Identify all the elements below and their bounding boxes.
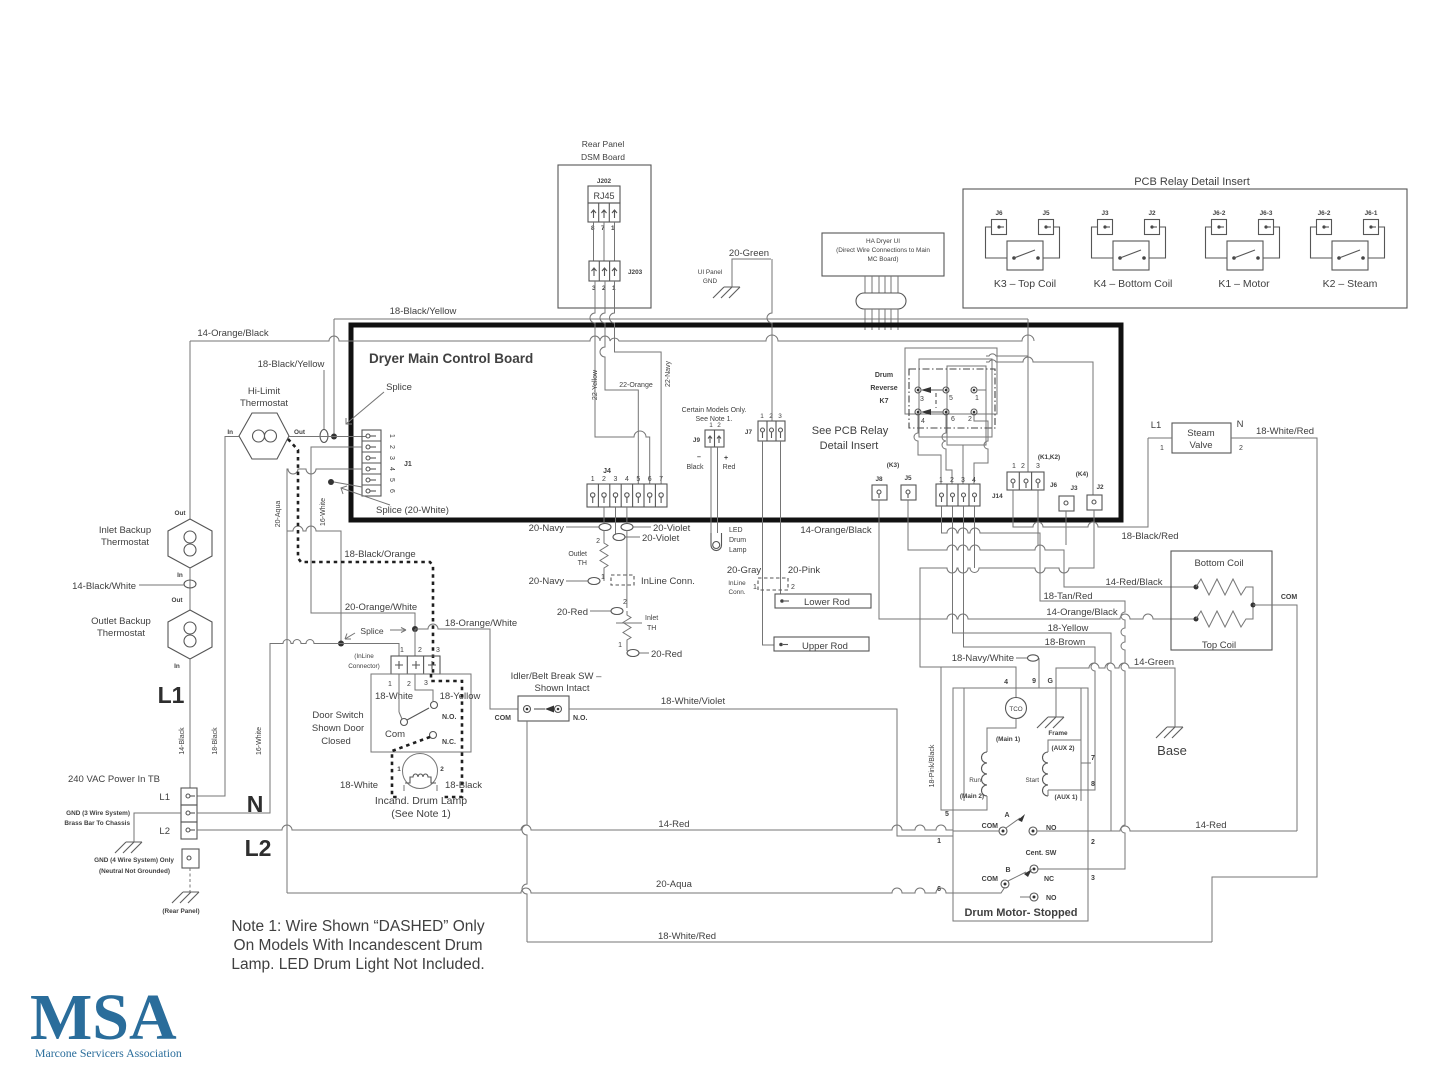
svg-text:2: 2: [388, 445, 395, 449]
svg-text:N.C.: N.C.: [442, 739, 456, 746]
ground Base: [1156, 727, 1183, 738]
wire cross link 16-White upper: [287, 526, 341, 643]
svg-text:1: 1: [937, 838, 941, 845]
box Upper Rod: [774, 637, 869, 652]
svg-text:18-White: 18-White: [340, 780, 378, 791]
door switch box: [371, 674, 471, 752]
svg-text:6: 6: [648, 476, 652, 483]
svg-text:UI Panel: UI Panel: [698, 269, 723, 276]
drum reverse K7 nest mid rect: [919, 359, 992, 437]
wire J4 pin2 20-Navy chain: [566, 507, 604, 527]
svg-text:1: 1: [618, 642, 622, 649]
svg-text:18-White/Violet: 18-White/Violet: [661, 696, 726, 707]
svg-text:InLine Conn.: InLine Conn.: [641, 576, 695, 587]
svg-text:Detail Insert: Detail Insert: [820, 440, 879, 452]
svg-text:18-Black/Red: 18-Black/Red: [1121, 531, 1178, 542]
svg-text:(K4): (K4): [1076, 471, 1088, 478]
svg-text:2: 2: [769, 413, 773, 420]
svg-text:14-Green: 14-Green: [1134, 657, 1174, 668]
svg-text:L1: L1: [1151, 420, 1162, 431]
svg-text:1: 1: [1012, 463, 1016, 470]
svg-text:18-Yellow: 18-Yellow: [1048, 623, 1089, 634]
thermal cutoff TCO: [1006, 698, 1027, 719]
svg-text:N: N: [247, 791, 264, 817]
svg-text:J5: J5: [904, 475, 912, 482]
relay K7 drum reverse: [870, 372, 979, 425]
svg-text:20-Red: 20-Red: [557, 607, 588, 618]
wire 18-Black/Yellow down right side to J6 pin 2: [1027, 319, 1029, 472]
svg-text:Thermostat: Thermostat: [97, 628, 145, 639]
wire thermostat chain In drop 18-Black: [197, 437, 239, 797]
svg-text:Steam: Steam: [1187, 428, 1215, 439]
wire J202 to J203 pins: [594, 222, 615, 261]
outlet backup thermostat: [91, 597, 212, 670]
svg-text:20-Green: 20-Green: [729, 248, 769, 259]
svg-text:J6-2: J6-2: [1213, 210, 1226, 217]
wire J1 pin2 20-Orange/White run: [311, 447, 415, 629]
svg-text:Drum: Drum: [729, 537, 746, 544]
svg-text:Drum Motor- Stopped: Drum Motor- Stopped: [964, 907, 1077, 919]
svg-text:J5: J5: [1042, 210, 1050, 217]
svg-text:(AUX 1): (AUX 1): [1054, 794, 1077, 801]
box heater coils: [1171, 551, 1272, 651]
hi-limit thermostat: [227, 386, 306, 459]
svg-text:18-White: 18-White: [375, 691, 413, 702]
svg-text:K2 – Steam: K2 – Steam: [1323, 278, 1378, 290]
svg-text:On Models With Incandescent Dr: On Models With Incandescent Drum: [234, 937, 483, 954]
drum reverse K7 dash-dot box: [909, 369, 995, 428]
svg-text:J8: J8: [875, 476, 883, 483]
wire dashed connector pin3 to lamp pin2: [431, 674, 462, 797]
switch centrifugal B: [1001, 880, 1009, 888]
wire 18-Orange/White from splice to idler COM: [415, 624, 518, 709]
valve steam: [1151, 419, 1244, 453]
svg-text:Door Switch: Door Switch: [312, 710, 363, 721]
svg-text:14-Orange/Black: 14-Orange/Black: [197, 328, 269, 339]
svg-text:J6-3: J6-3: [1260, 210, 1273, 217]
svg-text:22-Navy: 22-Navy: [665, 360, 672, 387]
svg-text:K7: K7: [880, 398, 889, 405]
wire start to pins 7 8: [1048, 740, 1095, 796]
svg-text:Com: Com: [385, 729, 405, 740]
wire J9 pins to LED lamp: [711, 447, 718, 533]
svg-text:3: 3: [424, 680, 428, 687]
svg-text:Start: Start: [1026, 777, 1040, 784]
HA Dryer UI box: [822, 233, 944, 276]
svg-text:In: In: [177, 572, 183, 579]
wire idler COM down: [522, 721, 527, 942]
svg-text:In: In: [174, 663, 180, 670]
wire J4 pin3 20-Violet lower: [616, 507, 641, 537]
connector J203: [589, 261, 643, 292]
svg-text:Top Coil: Top Coil: [1202, 640, 1236, 651]
svg-text:PCB Relay Detail Insert: PCB Relay Detail Insert: [1134, 176, 1250, 188]
wire inlet to outlet thermostat: [189, 568, 191, 610]
resistor Outlet TH: [600, 530, 608, 581]
svg-text:COM: COM: [1281, 594, 1298, 601]
svg-text:22-Yellow: 22-Yellow: [592, 369, 599, 400]
svg-text:4: 4: [921, 418, 925, 425]
wire bundle HA UI to board: [865, 276, 898, 293]
svg-text:3: 3: [614, 476, 618, 483]
svg-text:Inlet Backup: Inlet Backup: [99, 525, 151, 536]
wire 22-Navy from J203 pin 1: [610, 281, 662, 484]
svg-text:20-Gray: 20-Gray: [727, 565, 762, 576]
svg-text:TH: TH: [578, 560, 587, 567]
svg-text:L2: L2: [245, 835, 272, 861]
svg-text:See PCB Relay: See PCB Relay: [812, 425, 889, 437]
wire J6 pin3 stub: [1037, 490, 1039, 545]
svg-text:1: 1: [1160, 445, 1164, 452]
svg-text:14-Red: 14-Red: [658, 819, 689, 830]
svg-text:Connector): Connector): [348, 663, 380, 670]
svg-text:4: 4: [1004, 679, 1008, 686]
svg-text:14-Red: 14-Red: [1195, 820, 1226, 831]
svg-text:18-Pink/Black: 18-Pink/Black: [929, 744, 936, 787]
svg-text:3: 3: [961, 477, 965, 484]
svg-text:B: B: [1005, 867, 1010, 874]
svg-text:2: 2: [1021, 463, 1025, 470]
wire J7 pin3 to lower rod: [780, 441, 782, 594]
wire J7 pin1 to upper rod: [763, 441, 775, 645]
connector J14: [936, 477, 1003, 506]
connector J6: [1007, 454, 1060, 490]
svg-text:18-Black: 18-Black: [212, 727, 219, 755]
svg-text:(Main 2): (Main 2): [960, 793, 984, 800]
svg-text:DSM Board: DSM Board: [581, 152, 625, 162]
switch centrifugal A: [999, 827, 1007, 835]
wire dashed to rear panel ground: [189, 868, 191, 892]
svg-text:18-Brown: 18-Brown: [1045, 637, 1086, 648]
svg-text:Splice: Splice: [360, 626, 383, 636]
svg-text:J9: J9: [693, 437, 701, 444]
svg-text:(K1,K2): (K1,K2): [1038, 454, 1060, 461]
svg-text:Hi-Limit: Hi-Limit: [248, 386, 281, 397]
svg-text:HA Dryer UI: HA Dryer UI: [866, 238, 900, 245]
lamp LED drum: [711, 533, 722, 551]
svg-text:Incand. Drum Lamp: Incand. Drum Lamp: [375, 795, 467, 807]
svg-text:J7: J7: [745, 429, 753, 436]
wire J6 pin1 18-Black/Red to steam valve: [1013, 438, 1148, 527]
svg-text:14-Orange/Black: 14-Orange/Black: [1046, 607, 1118, 618]
svg-text:J3: J3: [1101, 210, 1109, 217]
svg-text:Out: Out: [294, 429, 306, 436]
wire TCO to run winding: [987, 719, 1016, 753]
svg-text:NC: NC: [1044, 876, 1054, 883]
svg-text:Thermostat: Thermostat: [240, 398, 288, 409]
relay K3 Top Coil detail: [986, 210, 1060, 290]
svg-text:1: 1: [709, 422, 713, 429]
svg-text:Reverse: Reverse: [870, 385, 897, 392]
svg-text:J1: J1: [404, 461, 412, 468]
svg-text:LED: LED: [729, 527, 743, 534]
relay K4 Bottom Coil detail: [1092, 210, 1173, 290]
wire K7 inner rect pin3 feeder: [962, 445, 964, 484]
svg-text:Cent. SW: Cent. SW: [1026, 850, 1057, 857]
svg-text:TCO: TCO: [1009, 706, 1022, 713]
svg-text:1: 1: [601, 574, 605, 581]
svg-text:14-Orange/Black: 14-Orange/Black: [800, 525, 872, 536]
svg-text:4: 4: [388, 467, 395, 471]
wire 16-White to door connector pin 1: [270, 640, 399, 657]
svg-text:GND: GND: [703, 278, 718, 285]
svg-text:1: 1: [388, 681, 392, 688]
svg-text:In: In: [227, 429, 233, 436]
connector J7: [745, 413, 785, 441]
drum reverse K7 nest inner rect: [947, 366, 986, 445]
wire 14-Green: [1056, 663, 1175, 727]
wire J1 pin4 to 20-Aqua drop: [287, 469, 362, 893]
svg-text:COM: COM: [982, 823, 999, 830]
wire N terminal to chassis ground: [134, 813, 181, 842]
svg-text:L1: L1: [159, 792, 170, 803]
svg-text:8: 8: [1091, 781, 1095, 788]
svg-text:18-Black/Yellow: 18-Black/Yellow: [390, 306, 457, 317]
ground rear panel: [172, 892, 199, 903]
svg-text:Upper Rod: Upper Rod: [802, 641, 848, 652]
svg-text:Red: Red: [723, 464, 736, 471]
svg-text:InLine: InLine: [728, 580, 746, 587]
wire bundle stadium to board edge: [865, 309, 898, 330]
wire from label into splice oval: [323, 370, 325, 430]
svg-text:(See Note 1): (See Note 1): [391, 808, 451, 820]
wire idler NO 18-White/Violet: [569, 709, 953, 836]
connector GND 4 wire box: [182, 849, 199, 868]
svg-text:K1 – Motor: K1 – Motor: [1218, 278, 1270, 290]
svg-text:5: 5: [945, 811, 949, 818]
wire 18-White/Red long bottom run: [527, 941, 1212, 943]
svg-text:(Direct Wire Connections to Ma: (Direct Wire Connections to Main: [836, 247, 930, 254]
svg-text:20-Aqua: 20-Aqua: [656, 879, 693, 890]
svg-text:Base: Base: [1157, 743, 1187, 758]
node splice dot right: [412, 626, 418, 632]
svg-text:GND (3 Wire System): GND (3 Wire System): [66, 810, 130, 817]
inlet backup thermostat: [99, 510, 212, 579]
svg-text:Valve: Valve: [1189, 440, 1212, 451]
svg-text:Outlet: Outlet: [568, 551, 587, 558]
idler belt break switch: [495, 671, 602, 722]
wire 18-Black/Yellow drop to splice: [333, 319, 335, 436]
svg-text:Out: Out: [171, 597, 183, 604]
ground Frame: [1055, 688, 1057, 717]
terminal block 240VAC: [68, 774, 197, 839]
svg-text:Bottom Coil: Bottom Coil: [1194, 558, 1243, 569]
wire J5 14-Red/Black to bottom coil: [908, 500, 1196, 587]
svg-text:Splice (20-White): Splice (20-White): [376, 505, 449, 516]
svg-text:20-Pink: 20-Pink: [788, 565, 820, 576]
wire splice to door connector pin 2: [414, 629, 416, 656]
svg-text:NO: NO: [1046, 825, 1057, 832]
svg-text:7: 7: [1091, 755, 1095, 762]
svg-text:3: 3: [1091, 875, 1095, 882]
svg-text:1: 1: [753, 584, 757, 591]
svg-text:N.O.: N.O.: [573, 715, 587, 722]
svg-text:Inlet: Inlet: [645, 615, 658, 622]
svg-text:(K3): (K3): [887, 462, 899, 469]
wire coil COM: [1253, 605, 1297, 831]
wire dashed NC to lamp pin1: [392, 737, 430, 797]
svg-text:2: 2: [623, 599, 627, 606]
connector J9: [693, 422, 724, 447]
svg-text:(Main 1): (Main 1): [996, 736, 1020, 743]
wire K7 pin1 to nest edge: [977, 389, 986, 391]
svg-text:16-White: 16-White: [256, 727, 263, 755]
node splice 20-White dot: [328, 479, 334, 485]
lamp incandescent drum: [397, 754, 444, 792]
svg-text:2: 2: [418, 647, 422, 654]
svg-text:1: 1: [591, 476, 595, 483]
svg-text:Drum: Drum: [875, 372, 893, 379]
svg-text:2: 2: [407, 681, 411, 688]
node splice junction: [331, 434, 337, 440]
svg-text:1: 1: [400, 647, 404, 654]
wire dashed 18-Black/Orange: [288, 439, 433, 674]
svg-text:2: 2: [602, 476, 606, 483]
svg-text:Thermostat: Thermostat: [101, 537, 149, 548]
svg-text:COM: COM: [982, 876, 999, 883]
svg-text:Certain Models Only.: Certain Models Only.: [682, 407, 747, 414]
wire K7 nest exits right: [986, 354, 1093, 495]
svg-text:6: 6: [951, 416, 955, 423]
svg-text:1: 1: [939, 477, 943, 484]
svg-text:18-White/Red: 18-White/Red: [1256, 426, 1314, 437]
svg-text:J6-1: J6-1: [1365, 210, 1378, 217]
wire 20-Aqua long bottom run: [287, 888, 953, 893]
svg-text:Dryer Main Control Board: Dryer Main Control Board: [369, 351, 533, 366]
motor box: [953, 688, 1088, 921]
splice oval on hi-limit out wire: [320, 430, 328, 443]
wire N terminal to 16-White riser: [197, 643, 270, 813]
wire hi-limit out to J1 pin 1: [289, 436, 366, 438]
wire 14-Red long L2 run: [197, 825, 953, 830]
wire 20-Navy lower: [566, 580, 588, 582]
svg-text:3: 3: [436, 647, 440, 654]
svg-text:18-Black/Yellow: 18-Black/Yellow: [258, 359, 325, 370]
svg-text:20-Navy: 20-Navy: [529, 576, 565, 587]
svg-text:18-Navy/White: 18-Navy/White: [952, 653, 1014, 664]
svg-text:TH: TH: [647, 625, 656, 632]
svg-text:14-Black/White: 14-Black/White: [72, 581, 136, 592]
svg-text:K3 – Top Coil: K3 – Top Coil: [994, 278, 1056, 290]
DSM board outline: [558, 165, 651, 308]
wire 20-Green down to J7 pin 2: [767, 259, 772, 421]
svg-text:J202: J202: [597, 178, 612, 185]
svg-text:(InLine: (InLine: [354, 653, 374, 660]
svg-text:N: N: [1237, 419, 1244, 430]
wire 22-Yellow vertical from J203 pin 3: [590, 281, 650, 484]
svg-text:A: A: [1004, 812, 1009, 819]
wire splice dot to J1 pin 6: [334, 482, 362, 487]
wire run to pin 5: [953, 796, 987, 810]
node splice dot left: [338, 641, 344, 647]
svg-text:Splice: Splice: [386, 382, 412, 393]
svg-text:Marcone Servicers Association: Marcone Servicers Association: [35, 1046, 182, 1060]
wire 18-Black/Yellow top: [334, 318, 1028, 320]
inline connector dashed (outlet-inlet): [611, 575, 634, 585]
svg-text:Rear Panel: Rear Panel: [582, 139, 625, 149]
coil Start winding: [1043, 752, 1049, 796]
svg-text:18-Black: 18-Black: [445, 780, 482, 791]
wire 14-Orange/Black down to inlet thermostat: [189, 341, 191, 519]
svg-text:Run: Run: [969, 777, 981, 784]
svg-text:Shown Door: Shown Door: [312, 723, 364, 734]
svg-text:4: 4: [972, 477, 976, 484]
svg-text:MC Board): MC Board): [868, 256, 899, 263]
svg-text:Brass Bar To Chassis: Brass Bar To Chassis: [64, 820, 130, 827]
svg-text:See Note 1.: See Note 1.: [696, 416, 733, 423]
wire K7 pin6 to J14 pin2: [942, 415, 952, 484]
wire J8 14-Orange/Black to top coil: [879, 500, 1196, 619]
svg-text:3: 3: [920, 396, 924, 403]
wire K7 pin4 to J14 pin1: [914, 415, 941, 484]
switch door contacts: [385, 674, 456, 746]
wire J14 pin3 18-Brown: [964, 506, 1096, 790]
svg-text:2: 2: [968, 416, 972, 423]
svg-text:COM: COM: [495, 715, 512, 722]
svg-text:Outlet Backup: Outlet Backup: [91, 616, 151, 627]
svg-text:J14: J14: [992, 493, 1003, 500]
wire J14 pin1 18-Tan/Red: [942, 506, 1126, 869]
wire 14-Black/White label lead: [139, 584, 184, 586]
svg-text:J2: J2: [1148, 210, 1156, 217]
svg-text:14-Red/Black: 14-Red/Black: [1105, 577, 1162, 588]
connector inline door switch: [348, 647, 440, 688]
svg-text:9: 9: [1032, 678, 1036, 685]
wire J2 to motor run 18-Pink/Black: [920, 510, 1094, 810]
svg-text:22-Orange: 22-Orange: [619, 382, 653, 389]
svg-text:(AUX 2): (AUX 2): [1051, 745, 1074, 752]
svg-text:2: 2: [950, 477, 954, 484]
svg-text:18-Black/Orange: 18-Black/Orange: [344, 549, 415, 560]
svg-text:2: 2: [596, 538, 600, 545]
wire J3 stub: [1065, 511, 1067, 545]
wire 20-Red lower: [627, 648, 649, 653]
svg-text:Lamp. LED Drum Light Not Inclu: Lamp. LED Drum Light Not Included.: [231, 956, 484, 973]
svg-text:4: 4: [625, 476, 629, 483]
svg-text:5: 5: [636, 476, 640, 483]
svg-text:20-Aqua: 20-Aqua: [275, 501, 282, 528]
svg-text:20-Navy: 20-Navy: [529, 523, 565, 534]
svg-text:2: 2: [1239, 445, 1243, 452]
wire J14 pin4 stub: [974, 506, 976, 568]
wire J4 pin4 20-Violet upper: [627, 507, 651, 527]
svg-text:2: 2: [791, 584, 795, 591]
svg-text:Conn.: Conn.: [728, 589, 745, 596]
svg-text:3: 3: [1036, 463, 1040, 470]
svg-text:1: 1: [975, 395, 979, 402]
svg-text:J203: J203: [628, 269, 643, 276]
svg-text:NO: NO: [1046, 895, 1057, 902]
svg-text:3: 3: [388, 456, 395, 460]
svg-text:7: 7: [659, 476, 663, 483]
svg-text:240 VAC Power In TB: 240 VAC Power In TB: [68, 774, 160, 785]
wire 14-Orange/Black upper left: [190, 335, 1034, 341]
wire steam valve leads: [1148, 438, 1317, 942]
resistor Inlet TH: [623, 611, 631, 648]
svg-text:RJ45: RJ45: [593, 191, 614, 201]
svg-text:2: 2: [1091, 839, 1095, 846]
svg-text:5: 5: [388, 478, 395, 482]
svg-text:G: G: [1048, 678, 1054, 685]
svg-text:Idler/Belt Break SW –: Idler/Belt Break SW –: [511, 671, 603, 682]
svg-text:1: 1: [388, 434, 395, 438]
svg-text:Out: Out: [174, 510, 186, 517]
svg-text:5: 5: [949, 395, 953, 402]
ground UI panel: [713, 287, 740, 298]
svg-text:Shown Intact: Shown Intact: [535, 683, 590, 694]
svg-text:2: 2: [717, 422, 721, 429]
svg-text:Note 1: Wire Shown “DASHED” On: Note 1: Wire Shown “DASHED” Only: [231, 918, 484, 935]
